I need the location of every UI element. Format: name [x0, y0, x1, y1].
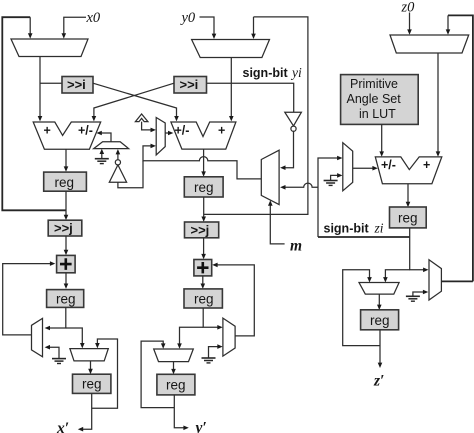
svg-text:m: m — [290, 238, 302, 255]
wire adder P1 output to reg R4 — [64, 273, 69, 289]
LUT box (Primitive Angle Set in LUT) — [341, 75, 419, 125]
svg-text:reg: reg — [370, 313, 390, 328]
svg-text:reg: reg — [55, 175, 75, 190]
wire mux M11 output to reg R5 — [88, 361, 93, 374]
ground for mux M10 — [45, 345, 66, 364]
wire reg R5 output to x' — [78, 393, 92, 431]
wire sign-bit zi net to mux M7 — [318, 156, 343, 237]
wire reg R4 output branches — [45, 307, 85, 348]
wire y feedback into mux M2 — [204, 17, 308, 215]
mux M13 (y output mux) — [154, 349, 194, 362]
register R5 (x output reg) — [73, 374, 111, 393]
svg-text:reg: reg — [398, 211, 418, 226]
wire m select into mux M6 — [268, 200, 285, 244]
wire y loop into adder P2 — [212, 263, 254, 336]
svg-text:sign-bit: sign-bit — [324, 222, 370, 236]
svg-text:reg: reg — [56, 292, 76, 307]
wire mux M9 output to reg R6 — [377, 294, 382, 310]
wire mux M1 output to adder A1 — [38, 57, 43, 122]
wire reg R2 output to shifter S4 — [201, 197, 206, 222]
wire z0 into mux M3 — [407, 13, 412, 35]
shifter S2 (>>i) — [174, 77, 207, 94]
wire adder A1 output to reg R1 — [64, 149, 69, 172]
wire sign-bit yi tap to inverter I1 — [207, 83, 294, 112]
svg-text:Angle Set: Angle Set — [347, 92, 402, 106]
wire S1 output diagonal to adder A2 — [93, 83, 179, 121]
svg-text:sign-bit: sign-bit — [243, 66, 289, 80]
wire y0 into mux M2 — [200, 17, 217, 39]
wire z output loop to mux M9 — [343, 270, 380, 346]
register R3 (z reg) — [390, 207, 427, 228]
wire mux M8 output to z feedback — [441, 280, 473, 282]
wire control net from mux M6 to I2 and M5 — [118, 144, 261, 188]
shifter S1 (>>i) — [62, 77, 93, 94]
svg-text:+/-: +/- — [175, 124, 190, 138]
svg-text:reg: reg — [166, 378, 186, 393]
wire mux M2 output to adder A2 — [229, 58, 234, 122]
wire S3 output to adder P1 — [64, 236, 69, 255]
svg-text:>>i: >>i — [67, 77, 86, 92]
wire mux M7 output to adder A3 control — [353, 166, 378, 171]
wire x loop into adder P1 — [3, 261, 56, 335]
mux M12 (y feedback select mux) — [223, 318, 235, 356]
svg-text:zi: zi — [374, 221, 384, 236]
mux M6 (mode select mux) — [261, 150, 279, 204]
svg-text:+: + — [44, 124, 51, 138]
adder A3 (z +/- adder) — [375, 157, 442, 184]
wire adder A2 output to reg R2 — [201, 149, 206, 177]
wire y output feedback loop to mux M13 — [141, 341, 174, 408]
svg-text:in LUT: in LUT — [359, 107, 396, 121]
wire mux M5 output to adder A2 control — [165, 131, 173, 136]
mux M10 (x feedback select mux) — [32, 318, 43, 356]
wire mux M3 output to adder A3 — [436, 53, 441, 157]
wire sign-bit zi into mux M6 — [280, 183, 318, 190]
wire tap to shifter S1 — [40, 82, 62, 84]
svg-text:y′: y′ — [194, 420, 207, 433]
svg-text:>>j: >>j — [54, 221, 73, 236]
mux M3 (z input mux) — [390, 35, 469, 53]
svg-text:+: + — [423, 158, 430, 172]
wire S2 output diagonal to adder A1 — [92, 83, 174, 121]
mux M1 (x input mux) — [11, 39, 88, 57]
register R4 (x reg 2) — [47, 290, 84, 308]
wire adder P2 output to reg R7 — [201, 276, 206, 289]
mux M9 (z output mux) — [359, 283, 399, 295]
mux M5 (y sign select mux) — [156, 118, 165, 155]
wire reg R8 output to y' — [174, 395, 189, 430]
svg-text:z′: z′ — [373, 373, 384, 390]
shifter S3 (x >>j) — [48, 220, 82, 236]
adder A1 (x +/- adder) — [33, 122, 101, 149]
ground for mux M12 — [202, 344, 223, 363]
wire x0 into mux M1 — [62, 17, 87, 38]
mux M4 (x sign select mux) — [94, 142, 129, 149]
adder A2 (y +/- adder) — [171, 122, 236, 149]
wire reg R7 output branches — [177, 308, 223, 349]
register R6 (z output reg) — [361, 310, 399, 330]
inverter I2 (x control inverter) — [109, 149, 126, 182]
register R7 (y reg 2) — [184, 289, 222, 308]
wire sign-bit zi horizontal run — [318, 236, 410, 238]
svg-text:reg: reg — [194, 291, 214, 306]
adder P2 (y + box) — [194, 260, 212, 276]
svg-text:x0: x0 — [86, 10, 101, 26]
mux M8 (z feedback mux) — [429, 260, 441, 300]
wire LUT output to adder A3 — [379, 124, 384, 156]
mux M7 (z sign select mux) — [343, 143, 353, 191]
inverter I1 (sign-bit yi inverter) — [285, 112, 302, 131]
up arrow symbol (y control constant) — [135, 114, 148, 122]
wire x output feedback loop to mux M11 — [92, 339, 118, 408]
wire reg R3 output branches — [383, 228, 428, 283]
label sign-bit zi — [324, 221, 384, 236]
wire inverter I1 output to mux M6 — [280, 131, 293, 170]
svg-text:z0: z0 — [401, 0, 416, 16]
svg-text:y0: y0 — [180, 10, 196, 26]
wire up arrow to mux M5 — [142, 122, 156, 133]
svg-text:reg: reg — [194, 180, 214, 195]
ground for mux M4 — [95, 149, 109, 164]
register R8 (y output reg) — [157, 374, 195, 395]
svg-text:+/-: +/- — [381, 158, 396, 172]
svg-text:yi: yi — [290, 65, 302, 80]
register R1 (x reg) — [44, 172, 87, 191]
ground for mux M7 — [324, 173, 343, 185]
svg-text:+: + — [218, 124, 225, 138]
svg-text:reg: reg — [82, 377, 102, 392]
svg-text:+/-: +/- — [78, 124, 93, 138]
wire adder A3 output to reg R3 — [406, 184, 411, 208]
wire S4 output to adder P2 — [201, 238, 206, 259]
wire z feedback into mux M3 — [446, 15, 473, 281]
wire reg R6 output to z' — [378, 330, 383, 368]
mux M11 (x output mux) — [70, 349, 108, 361]
svg-text:>>j: >>j — [191, 222, 210, 237]
wire mux M4 output to adder A1 control — [96, 131, 111, 142]
label sign-bit yi — [243, 65, 302, 80]
shifter S4 (y >>j) — [185, 222, 219, 238]
svg-text:Primitive: Primitive — [350, 77, 398, 91]
wire reg R1 output to shifter S3 — [64, 191, 69, 220]
svg-text:x′: x′ — [56, 420, 69, 433]
wire x feedback into mux M1 — [2, 17, 66, 210]
svg-text:>>i: >>i — [180, 77, 199, 92]
wire mux M13 output to reg R8 — [171, 362, 176, 375]
mux M2 (y input mux) — [192, 40, 270, 58]
ground for mux M8 — [406, 290, 428, 302]
register R2 (y reg) — [184, 177, 223, 197]
adder P1 (x + box) — [57, 255, 76, 272]
